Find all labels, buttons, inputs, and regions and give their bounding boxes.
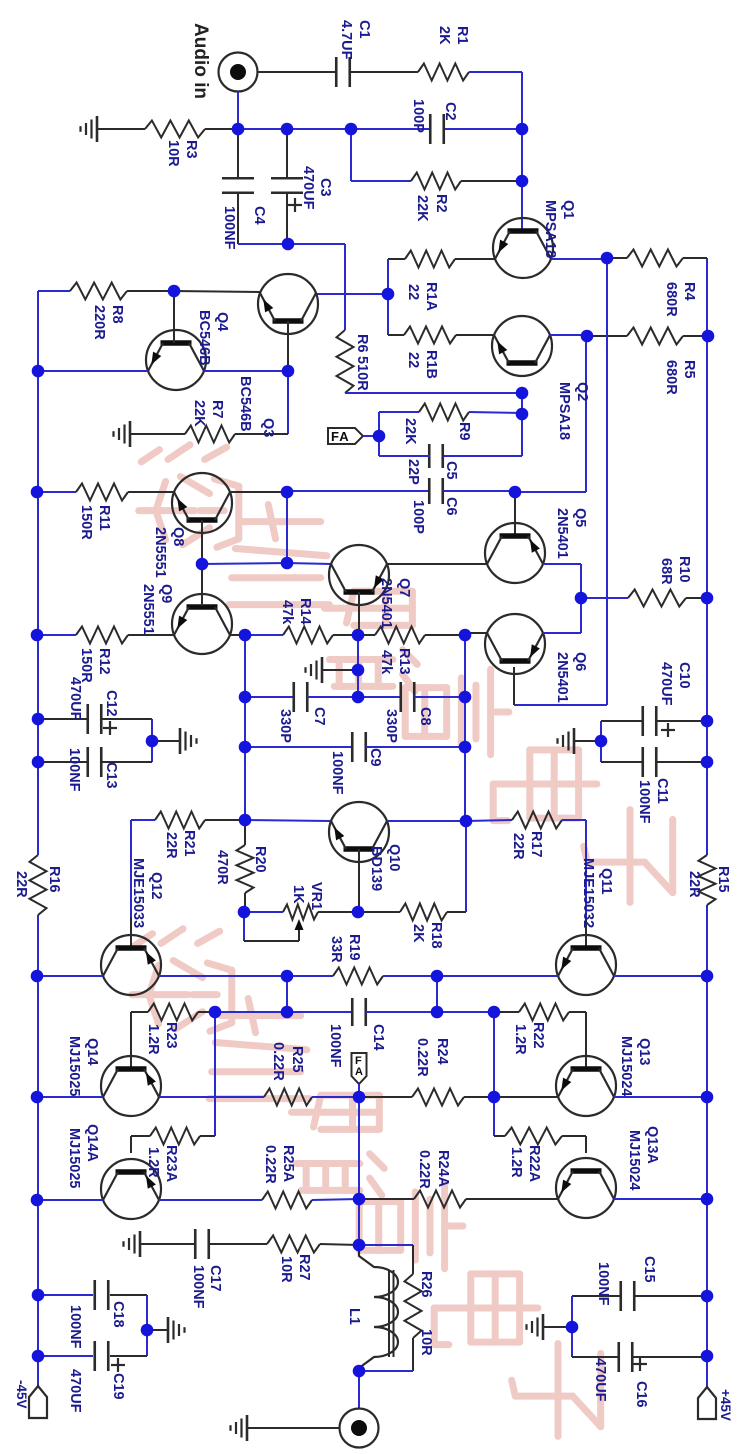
svg-text:22K: 22K [191, 400, 207, 427]
svg-text:Q7: Q7 [396, 578, 412, 597]
svg-text:330P: 330P [383, 709, 399, 743]
svg-text:C1: C1 [356, 20, 372, 39]
svg-text:C18: C18 [110, 1301, 126, 1328]
svg-text:Q3: Q3 [260, 418, 276, 437]
svg-text:1.2R: 1.2R [512, 1024, 528, 1055]
svg-text:R22A: R22A [526, 1145, 542, 1183]
svg-text:C12: C12 [103, 690, 119, 717]
svg-text:470UF: 470UF [300, 166, 316, 210]
svg-text:100NF: 100NF [190, 1265, 206, 1309]
svg-text:100NF: 100NF [636, 780, 652, 824]
svg-text:R18: R18 [428, 922, 444, 949]
svg-text:R16: R16 [46, 866, 62, 893]
svg-text:68R: 68R [658, 558, 674, 585]
svg-text:R27: R27 [296, 1254, 312, 1281]
svg-text:R14: R14 [297, 598, 313, 625]
svg-text:R22: R22 [530, 1022, 546, 1049]
svg-text:Q12: Q12 [148, 872, 164, 899]
svg-text:Q13: Q13 [636, 1038, 652, 1065]
svg-text:470UF: 470UF [67, 677, 83, 721]
svg-text:22: 22 [405, 352, 421, 368]
svg-text:-45V: -45V [14, 1380, 29, 1409]
svg-text:22: 22 [405, 284, 421, 300]
svg-text:2N5401: 2N5401 [378, 578, 394, 629]
svg-text:R1: R1 [454, 26, 470, 45]
svg-text:0.22R: 0.22R [262, 1145, 278, 1184]
svg-text:C17: C17 [207, 1265, 223, 1292]
svg-text:330P: 330P [277, 709, 293, 743]
svg-text:680R: 680R [663, 360, 679, 395]
svg-text:1.2R: 1.2R [145, 1024, 161, 1055]
svg-text:BC546B: BC546B [196, 310, 212, 366]
svg-text:R5: R5 [681, 360, 697, 379]
svg-text:10R: 10R [418, 1329, 434, 1356]
svg-text:VR1: VR1 [308, 882, 324, 910]
svg-text:150R: 150R [78, 505, 94, 540]
svg-text:2N5551: 2N5551 [140, 584, 156, 635]
svg-text:MJ15025: MJ15025 [66, 1036, 82, 1096]
svg-text:0.22R: 0.22R [270, 1042, 286, 1081]
svg-text:R7: R7 [209, 400, 225, 419]
svg-text:47k: 47k [378, 650, 394, 675]
svg-text:Q10: Q10 [386, 844, 402, 871]
svg-text:100NF: 100NF [329, 751, 345, 795]
svg-text:C3: C3 [317, 178, 333, 197]
svg-text:2N5551: 2N5551 [152, 527, 168, 578]
svg-text:10R: 10R [165, 140, 181, 167]
svg-text:R23A: R23A [163, 1145, 179, 1183]
svg-text:MJ15025: MJ15025 [66, 1128, 82, 1188]
svg-text:1.2R: 1.2R [145, 1147, 161, 1178]
svg-text:220R: 220R [91, 305, 107, 340]
svg-text:22P: 22P [405, 459, 421, 485]
svg-text:MJE15032: MJE15032 [580, 858, 596, 928]
svg-text:R13: R13 [396, 648, 412, 675]
svg-text:680R: 680R [663, 282, 679, 317]
svg-text:Q14: Q14 [84, 1038, 100, 1065]
svg-text:MJ15024: MJ15024 [618, 1036, 634, 1096]
svg-text:R24A: R24A [435, 1150, 451, 1188]
svg-text:22R: 22R [686, 871, 702, 898]
svg-text:Q1: Q1 [560, 200, 576, 219]
svg-text:Q5: Q5 [572, 508, 588, 527]
svg-text:C5: C5 [443, 461, 459, 480]
svg-text:C8: C8 [417, 707, 433, 726]
svg-text:R25: R25 [289, 1046, 305, 1073]
svg-text:R26: R26 [418, 1271, 434, 1298]
svg-text:1.2R: 1.2R [508, 1147, 524, 1178]
svg-text:100NF: 100NF [221, 206, 237, 250]
svg-text:R3: R3 [183, 140, 199, 159]
svg-text:R6: R6 [354, 334, 370, 353]
svg-text:470UF: 470UF [592, 1358, 608, 1402]
svg-text:MJ15024: MJ15024 [626, 1130, 642, 1190]
svg-text:100NF: 100NF [67, 1305, 83, 1349]
svg-text:4.7UF: 4.7UF [338, 20, 354, 60]
svg-text:R21: R21 [181, 830, 197, 857]
svg-text:C19: C19 [110, 1373, 126, 1400]
svg-text:R15: R15 [715, 866, 731, 893]
svg-text:R17: R17 [528, 831, 544, 858]
svg-text:R12: R12 [96, 648, 112, 675]
svg-text:10R: 10R [278, 1256, 294, 1283]
svg-text:C11: C11 [654, 778, 670, 804]
svg-text:+45V: +45V [718, 1389, 733, 1421]
svg-text:R10: R10 [676, 556, 692, 583]
svg-text:2N5401: 2N5401 [554, 652, 570, 703]
svg-text:MJE15033: MJE15033 [130, 858, 146, 928]
svg-text:R23: R23 [163, 1022, 179, 1049]
svg-text:BD139: BD139 [368, 846, 384, 891]
svg-text:22R: 22R [510, 833, 526, 860]
svg-text:22R: 22R [13, 871, 29, 898]
svg-text:C10: C10 [676, 662, 692, 689]
svg-text:R19: R19 [346, 934, 362, 961]
svg-text:C7: C7 [311, 707, 327, 726]
svg-text:C13: C13 [103, 762, 119, 789]
svg-text:C14: C14 [370, 1024, 386, 1051]
svg-text:0.22R: 0.22R [414, 1038, 430, 1077]
svg-text:R1A: R1A [423, 282, 439, 312]
svg-text:C15: C15 [641, 1256, 657, 1283]
svg-text:FA: FA [331, 429, 350, 444]
svg-text:R4: R4 [681, 282, 697, 301]
svg-text:Q2: Q2 [574, 382, 590, 401]
svg-text:22K: 22K [414, 195, 430, 222]
svg-text:R11: R11 [96, 505, 112, 531]
svg-text:Q13A: Q13A [644, 1126, 660, 1164]
svg-text:R1B: R1B [423, 350, 439, 379]
svg-text:0.22R: 0.22R [416, 1150, 432, 1189]
svg-text:22R: 22R [163, 832, 179, 859]
svg-text:100NF: 100NF [327, 1024, 343, 1068]
svg-text:R2: R2 [433, 194, 449, 213]
svg-text:2K: 2K [410, 924, 426, 943]
svg-text:BC546B: BC546B [237, 376, 253, 432]
svg-text:C9: C9 [367, 748, 383, 767]
svg-text:33R: 33R [328, 936, 344, 963]
svg-text:510R: 510R [354, 356, 370, 391]
svg-text:1K: 1K [290, 885, 306, 904]
svg-text:100P: 100P [410, 99, 426, 133]
svg-text:2K: 2K [436, 26, 452, 45]
svg-text:R24: R24 [434, 1038, 450, 1065]
svg-text:100NF: 100NF [595, 1262, 611, 1306]
svg-text:Q8: Q8 [170, 527, 186, 546]
svg-text:Q4: Q4 [214, 312, 230, 331]
svg-text:470R: 470R [214, 850, 230, 885]
svg-text:R8: R8 [109, 305, 125, 324]
svg-text:Q11: Q11 [598, 868, 614, 895]
svg-text:MPSA18: MPSA18 [556, 382, 572, 440]
svg-text:R20: R20 [252, 846, 268, 873]
svg-text:Audio in: Audio in [190, 23, 211, 99]
svg-text:470UF: 470UF [658, 662, 674, 706]
svg-text:C4: C4 [251, 206, 267, 225]
svg-text:C6: C6 [443, 497, 459, 516]
svg-text:Q9: Q9 [158, 584, 174, 603]
svg-text:Q14A: Q14A [84, 1124, 100, 1162]
svg-text:100NF: 100NF [66, 748, 82, 792]
svg-text:C2: C2 [442, 102, 458, 121]
svg-text:C16: C16 [633, 1381, 649, 1408]
svg-text:2N5401: 2N5401 [554, 508, 570, 559]
svg-text:100P: 100P [410, 500, 426, 534]
svg-text:A: A [355, 1066, 363, 1078]
svg-text:47k: 47k [279, 600, 295, 625]
svg-text:22K: 22K [402, 418, 418, 445]
svg-text:R25A: R25A [280, 1145, 296, 1183]
svg-text:L1: L1 [346, 1308, 362, 1325]
svg-text:Q6: Q6 [572, 652, 588, 671]
svg-text:MPSA18: MPSA18 [542, 200, 558, 258]
svg-text:470UF: 470UF [67, 1369, 83, 1413]
svg-text:R9: R9 [456, 422, 472, 441]
